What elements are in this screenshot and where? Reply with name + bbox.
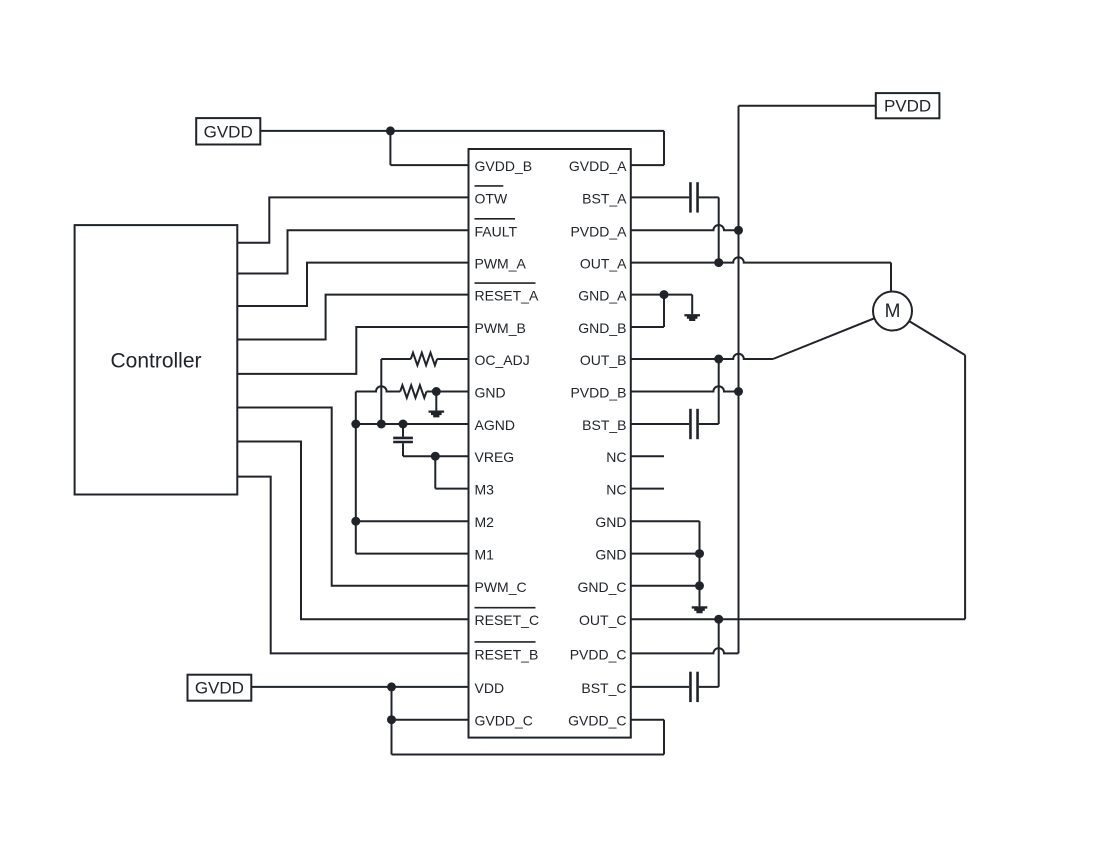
wire AGND row (356, 423, 469, 425)
svg-text:PVDD_A: PVDD_A (570, 223, 627, 239)
svg-text:M3: M3 (475, 482, 495, 498)
svg-text:GVDD_B: GVDD_B (475, 158, 533, 174)
wire R1 to AGND node (380, 359, 382, 424)
svg-text:RESET_B: RESET_B (475, 646, 539, 662)
wire controller to RESET_C (237, 442, 468, 620)
wire GND right row1 (631, 520, 700, 522)
junction OUT_B/BST (714, 355, 723, 364)
wire GND_A ground lead (691, 295, 693, 315)
svg-text:PVDD: PVDD (884, 97, 931, 116)
svg-text:GVDD: GVDD (204, 122, 253, 141)
junction GND_C (695, 581, 704, 590)
wire controller to PWM_B (237, 327, 468, 374)
wire OUT_C row (631, 618, 965, 620)
svg-text:GVDD_A: GVDD_A (569, 158, 627, 174)
wire OUT_C vertical (964, 355, 966, 619)
svg-text:OC_ADJ: OC_ADJ (475, 352, 530, 368)
junction VREG (431, 452, 440, 461)
wire BST_A lead (631, 196, 689, 198)
ground (analog) (429, 411, 445, 418)
wire OUT_A with hop (631, 257, 891, 262)
capacitor C3 (BST_B) (689, 409, 692, 439)
junction PVDD_B (734, 387, 743, 396)
svg-text:PWM_A: PWM_A (475, 256, 527, 272)
wire C3 to OUT_B (699, 423, 719, 425)
wire M1 row (356, 553, 469, 555)
wire GND right vertical (699, 521, 701, 606)
junction OUT_A/BST (714, 258, 723, 267)
svg-text:GND_A: GND_A (578, 288, 627, 304)
svg-text:OUT_C: OUT_C (579, 612, 626, 628)
svg-text:NC: NC (606, 449, 626, 465)
capacitor C2 (BST_A) (689, 182, 692, 212)
capacitor C1 (AGND-VREG) (393, 437, 413, 440)
svg-text:OTW: OTW (475, 190, 508, 206)
wire GVDD bottom rail (392, 754, 665, 756)
wire controller to PWM_A (237, 263, 468, 306)
svg-text:M2: M2 (475, 514, 495, 530)
junction GVDD rail (386, 126, 395, 135)
svg-text:OUT_B: OUT_B (580, 352, 627, 368)
wire controller to FAULT (237, 230, 468, 273)
svg-text:GND: GND (475, 385, 506, 401)
wire OUT_B diagonal to motor (773, 311, 893, 359)
svg-text:GND_B: GND_B (578, 320, 626, 336)
ground (GND_A/GND_B) (684, 314, 700, 321)
wire GVDD rail to GVDD_A pin (663, 131, 665, 165)
svg-text:NC: NC (606, 482, 626, 498)
wire C4 to OUT_C (699, 686, 719, 688)
wire OUT_A down to motor (890, 263, 892, 293)
svg-text:Controller: Controller (110, 350, 201, 373)
stub NC 2 (631, 488, 664, 490)
capacitor C4 (BST_C) (689, 672, 692, 702)
controller U2 box (75, 225, 238, 494)
wire to ground (435, 392, 437, 411)
wire controller to PWM_C (237, 408, 468, 586)
svg-text:GND_C: GND_C (577, 579, 626, 595)
junction OUT_C/BST (714, 615, 723, 624)
junction AGND-3 (399, 420, 408, 429)
svg-text:M1: M1 (475, 547, 495, 563)
wire GND_A row (631, 294, 692, 296)
resistor R2 (GND) (400, 385, 426, 398)
wire controller to OTW (237, 197, 468, 242)
wire GND_A to GND_B (663, 295, 665, 327)
wire controller to RESET_B (237, 477, 468, 654)
junction GND right (695, 549, 704, 558)
power flag GVDD (bottom) (188, 675, 252, 701)
wire PVDD box lead (739, 105, 876, 107)
wire GVDD_C left row (392, 719, 469, 721)
svg-text:VREG: VREG (475, 449, 515, 465)
wire PVDD_A with hop (631, 225, 739, 230)
power flag PVDD (876, 93, 940, 118)
svg-text:OUT_A: OUT_A (580, 256, 627, 272)
junction R2/ground (432, 387, 441, 396)
svg-text:PWM_B: PWM_B (475, 320, 526, 336)
svg-text:FAULT: FAULT (475, 223, 518, 239)
wire GND right row2 (631, 553, 700, 555)
power flag GVDD (top) (196, 118, 260, 144)
wire OC_ADJ lead (381, 358, 411, 360)
svg-text:RESET_C: RESET_C (475, 612, 540, 628)
wire PVDD vertical rail (738, 106, 740, 654)
wire C1 to VREG (402, 443, 404, 456)
stub NC 1 (631, 455, 664, 457)
svg-text:PVDD_C: PVDD_C (570, 646, 627, 662)
motor M1 circle (873, 292, 912, 331)
svg-text:BST_B: BST_B (582, 417, 626, 433)
svg-text:BST_C: BST_C (581, 680, 626, 696)
wire C2 to OUT_A (699, 196, 719, 198)
wire GVDD to VDD (251, 686, 468, 688)
wire VREG to M3 (434, 456, 436, 488)
svg-text:GVDD_C: GVDD_C (568, 713, 626, 729)
svg-text:PVDD_B: PVDD_B (570, 385, 626, 401)
svg-text:RESET_A: RESET_A (475, 288, 539, 304)
wire M2 row (356, 520, 469, 522)
svg-text:GND: GND (595, 547, 626, 563)
junction AGND-1 (351, 420, 360, 429)
junction AGND-2 (377, 420, 386, 429)
wire rail to GVDD_C right (663, 720, 665, 755)
wire bus left vertical (355, 392, 357, 554)
wire OUT_C diagonal to motor (893, 311, 966, 355)
wire GVDD bottom vertical (391, 687, 393, 755)
svg-text:GVDD: GVDD (195, 679, 244, 698)
wire BST_B lead (631, 423, 689, 425)
svg-text:VDD: VDD (475, 680, 505, 696)
svg-text:M: M (885, 301, 901, 322)
wire GND_C row (631, 585, 700, 587)
wire GVDD to GVDD_B pin (389, 131, 391, 165)
svg-text:GND: GND (595, 514, 626, 530)
wire controller to RESET_A (237, 295, 468, 340)
svg-text:GVDD_C: GVDD_C (475, 713, 533, 729)
wire GND row with hop (356, 386, 400, 391)
wire AGND to C1 (402, 424, 404, 437)
wire BST_C lead (631, 686, 689, 688)
junction M2 (351, 517, 360, 526)
junction GND_A (660, 290, 669, 299)
IC U1 body (469, 149, 631, 738)
svg-text:PWM_C: PWM_C (475, 579, 527, 595)
junction GVDD_C left (387, 715, 396, 724)
junction PVDD_A (734, 226, 743, 235)
ground (GND_C) (692, 606, 708, 613)
svg-text:AGND: AGND (475, 417, 515, 433)
wire PVDD_B with hop (631, 386, 739, 391)
svg-text:BST_A: BST_A (582, 190, 627, 206)
resistor R1 (OC_ADJ) (411, 353, 437, 366)
wire PVDD_C with hop (631, 648, 739, 653)
wire OUT_B with hop (631, 354, 773, 359)
junction VDD (387, 682, 396, 691)
wire GVDD top rail (260, 130, 664, 132)
